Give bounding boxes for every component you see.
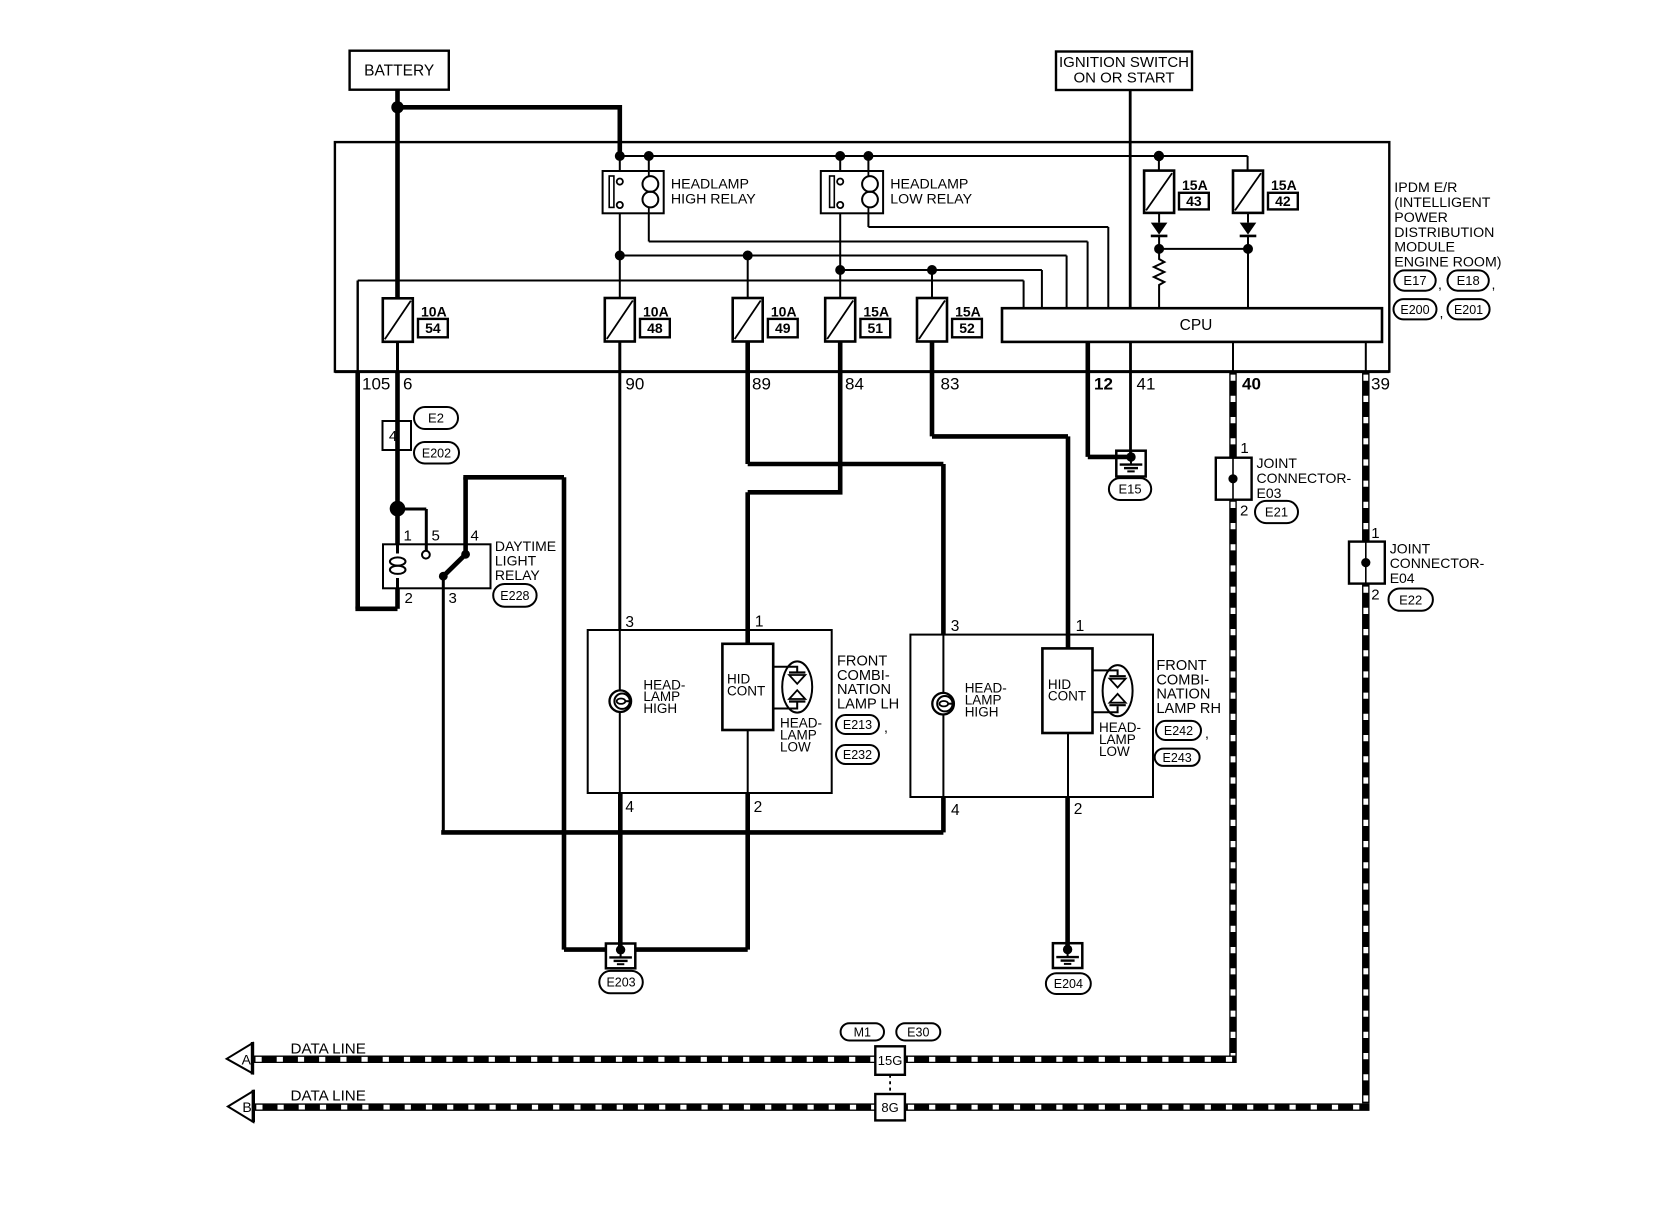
svg-text:E15: E15 bbox=[1118, 482, 1141, 497]
wire high relay contact output to fuses 48/49 and CPU bbox=[615, 213, 1067, 308]
svg-text:POWER: POWER bbox=[1394, 210, 1448, 226]
svg-text:83: 83 bbox=[941, 375, 960, 394]
svg-text:90: 90 bbox=[625, 375, 644, 394]
data line A label bbox=[291, 1041, 366, 1058]
svg-text:LAMP RH: LAMP RH bbox=[1156, 701, 1221, 717]
svg-text:1: 1 bbox=[404, 528, 412, 545]
svg-text:48: 48 bbox=[647, 320, 663, 336]
svg-text:15A: 15A bbox=[955, 304, 981, 320]
svg-text:2: 2 bbox=[1074, 801, 1083, 818]
connector E228 bbox=[493, 584, 536, 607]
front combination lamp LH label bbox=[837, 654, 899, 713]
svg-text:89: 89 bbox=[752, 375, 771, 394]
fuse 10A 49 bbox=[733, 298, 798, 342]
daytime running lamp wire (relay 3 - LH pin4 - RH pin4) bbox=[441, 793, 943, 832]
data line B label bbox=[291, 1088, 366, 1105]
svg-text:E22: E22 bbox=[1399, 592, 1422, 607]
wire CPU pin 12 to ground E15 bbox=[1088, 342, 1131, 457]
front combination lamp RH bbox=[910, 635, 1153, 797]
connector E17 bbox=[1394, 270, 1442, 292]
svg-text:LOW: LOW bbox=[1099, 744, 1130, 759]
svg-text:E03: E03 bbox=[1257, 485, 1282, 501]
svg-text:LAMP LH: LAMP LH bbox=[837, 696, 899, 712]
connector E203 bbox=[599, 971, 643, 993]
dashed link 15G-8G bbox=[889, 1075, 891, 1094]
fuse 15A 52 bbox=[917, 298, 982, 342]
connector 4 E2/E202 bbox=[383, 421, 412, 450]
svg-text:12: 12 bbox=[1094, 375, 1113, 394]
svg-text:42: 42 bbox=[1275, 193, 1291, 209]
wire bus to headlamp high relay pins bbox=[620, 156, 649, 171]
joint connector E03 labels bbox=[1240, 440, 1351, 520]
joint connector E04 bbox=[1349, 542, 1385, 584]
svg-text:4: 4 bbox=[389, 428, 397, 445]
svg-text:E242: E242 bbox=[1164, 724, 1193, 738]
connector E30 bbox=[896, 1023, 940, 1040]
RH lamp pin labels bbox=[951, 618, 1084, 819]
diode below fuse 43 bbox=[1151, 213, 1168, 249]
svg-text:CPU: CPU bbox=[1180, 317, 1213, 334]
svg-text:E203: E203 bbox=[606, 976, 635, 990]
wire branch to daytime relay pin 5 bbox=[398, 509, 427, 551]
svg-text:RELAY: RELAY bbox=[495, 567, 541, 583]
svg-text:HEADLAMP: HEADLAMP bbox=[890, 177, 968, 193]
svg-text:DATA LINE: DATA LINE bbox=[291, 1041, 366, 1058]
svg-text:E204: E204 bbox=[1054, 977, 1083, 991]
IPDM E/R module box bbox=[335, 142, 1389, 372]
wire pin 84 to LH lamp pin 1 (HID) bbox=[748, 342, 843, 644]
svg-text:E200: E200 bbox=[1400, 303, 1429, 317]
connector E242 bbox=[1156, 721, 1209, 741]
svg-text:HEADLAMP: HEADLAMP bbox=[671, 177, 749, 193]
data line A arrow bbox=[227, 1042, 253, 1075]
data line B arrow bbox=[228, 1090, 253, 1123]
data line wire pin 40 (checkered) bbox=[1229, 372, 1237, 1056]
connector E200 bbox=[1394, 299, 1444, 321]
connector E204 bbox=[1046, 973, 1091, 994]
svg-text:MODULE: MODULE bbox=[1394, 240, 1455, 256]
svg-text:15A: 15A bbox=[1182, 177, 1208, 193]
wire pin 89 to RH lamp pin 3 bbox=[748, 342, 944, 635]
LH lamp pin labels bbox=[625, 614, 763, 817]
diode below fuse 42 bbox=[1240, 213, 1257, 249]
svg-text:51: 51 bbox=[868, 320, 884, 336]
wire CPU feed line to pin 105 bbox=[358, 281, 1024, 372]
wire relay output to ground E203 bbox=[564, 947, 607, 952]
svg-text:IPDM E/R: IPDM E/R bbox=[1394, 180, 1457, 196]
connector E22 bbox=[1389, 589, 1433, 611]
connector E201 bbox=[1448, 299, 1490, 319]
wire CPU pin 105 to daytime relay coil pin 2 bbox=[355, 372, 397, 609]
splice 15G bbox=[875, 1046, 905, 1075]
svg-text:E213: E213 bbox=[843, 718, 872, 732]
splice 8G bbox=[875, 1094, 905, 1120]
svg-text:1: 1 bbox=[1076, 618, 1085, 635]
svg-text:4: 4 bbox=[625, 799, 634, 816]
svg-text:2: 2 bbox=[1240, 503, 1248, 520]
wire pin 90 to LH lamp pin 3 bbox=[618, 342, 621, 630]
daytime light relay E228 bbox=[383, 544, 491, 588]
svg-text:E21: E21 bbox=[1265, 505, 1288, 520]
svg-text:DISTRIBUTION: DISTRIBUTION bbox=[1394, 225, 1494, 241]
svg-text:10A: 10A bbox=[771, 304, 797, 320]
svg-text:,: , bbox=[884, 719, 888, 735]
battery feed wire B+ bbox=[391, 90, 620, 299]
svg-text:CONT: CONT bbox=[1048, 689, 1086, 704]
fuse 15A 51 bbox=[825, 298, 890, 342]
svg-text:HIGH: HIGH bbox=[643, 701, 677, 716]
svg-text:A: A bbox=[242, 1051, 252, 1067]
svg-text:3: 3 bbox=[625, 614, 634, 631]
svg-text:E228: E228 bbox=[500, 589, 529, 603]
svg-text:43: 43 bbox=[1186, 193, 1202, 209]
svg-text:1: 1 bbox=[755, 614, 764, 631]
svg-text:E243: E243 bbox=[1163, 751, 1192, 765]
svg-text:CONNECTOR-: CONNECTOR- bbox=[1257, 470, 1352, 486]
svg-text:105: 105 bbox=[362, 375, 390, 394]
svg-text:BATTERY: BATTERY bbox=[364, 62, 434, 79]
connector E15 bbox=[1109, 478, 1151, 500]
wire LH lamp pin 4 ground entry bbox=[618, 832, 623, 950]
svg-text:IGNITION SWITCH: IGNITION SWITCH bbox=[1059, 54, 1189, 71]
svg-text:E232: E232 bbox=[843, 748, 872, 762]
svg-text:DATA LINE: DATA LINE bbox=[291, 1088, 366, 1105]
wire daytime relay pin 4 to lamp ground line bbox=[463, 477, 564, 949]
svg-text:E04: E04 bbox=[1390, 570, 1415, 586]
svg-text:,: , bbox=[1492, 276, 1496, 292]
svg-text:10A: 10A bbox=[421, 304, 447, 320]
wire diode 42 to CPU bbox=[1247, 249, 1249, 308]
junction dots on battery bus bbox=[615, 151, 1164, 161]
battery B1 bbox=[350, 51, 449, 90]
svg-text:2: 2 bbox=[754, 799, 763, 816]
ground E203 bbox=[606, 944, 635, 969]
wire CPU pin 41 to ground E15 bbox=[1129, 342, 1132, 459]
svg-text:2: 2 bbox=[405, 590, 413, 607]
svg-text:E202: E202 bbox=[422, 446, 451, 460]
svg-text:LOW: LOW bbox=[780, 740, 811, 755]
svg-text:JOINT: JOINT bbox=[1257, 455, 1298, 471]
data line wire pin 39 (checkered) bbox=[1362, 372, 1370, 1104]
IPDM E/R label text bbox=[1394, 180, 1501, 270]
svg-text:E2: E2 bbox=[428, 411, 444, 426]
svg-text:4: 4 bbox=[951, 802, 960, 819]
svg-text:10A: 10A bbox=[643, 304, 669, 320]
wire low relay coil return to CPU bbox=[868, 213, 1108, 308]
data line B (checkered) bbox=[253, 1103, 1369, 1111]
svg-text:ENGINE ROOM): ENGINE ROOM) bbox=[1394, 254, 1501, 270]
ground E204 bbox=[1053, 943, 1082, 968]
svg-text:1: 1 bbox=[1240, 440, 1248, 457]
CPU pin stubs to IPDM border bbox=[1233, 342, 1366, 372]
fuse 15A 43 bbox=[1144, 171, 1209, 213]
connector E243 bbox=[1155, 749, 1200, 766]
svg-text:M1: M1 bbox=[854, 1025, 871, 1039]
fuse 10A 54 bbox=[383, 298, 448, 342]
wire high relay coil return to CPU bbox=[649, 213, 1088, 308]
svg-text:41: 41 bbox=[1137, 375, 1156, 394]
svg-text:E17: E17 bbox=[1403, 273, 1426, 288]
connector E202 bbox=[414, 442, 459, 464]
wire to daytime relay coil pin 1 bbox=[395, 509, 400, 545]
svg-text:15A: 15A bbox=[1271, 177, 1297, 193]
connector E232 bbox=[836, 745, 879, 764]
svg-text:3: 3 bbox=[449, 590, 457, 607]
svg-text:E30: E30 bbox=[907, 1025, 929, 1039]
svg-text:4: 4 bbox=[471, 528, 479, 545]
svg-text:8G: 8G bbox=[881, 1100, 898, 1115]
ground E15 bbox=[1116, 451, 1145, 477]
svg-text:54: 54 bbox=[425, 320, 441, 336]
wire joining diode outputs bbox=[1154, 244, 1253, 254]
wire ignition to IPDM pin 41 / CPU bbox=[1129, 90, 1132, 308]
svg-text:E18: E18 bbox=[1457, 273, 1480, 288]
fuse 15A 42 bbox=[1233, 171, 1298, 213]
data line A (checkered) bbox=[253, 1056, 1237, 1064]
svg-text:ON OR START: ON OR START bbox=[1073, 70, 1174, 87]
CPU bbox=[1002, 308, 1382, 342]
svg-text:84: 84 bbox=[845, 375, 864, 394]
svg-text:15G: 15G bbox=[878, 1053, 903, 1068]
svg-text:1: 1 bbox=[1371, 525, 1379, 542]
svg-text:LOW RELAY: LOW RELAY bbox=[890, 192, 972, 208]
front combination lamp RH label bbox=[1156, 658, 1221, 717]
svg-text:49: 49 bbox=[775, 320, 791, 336]
svg-text:2: 2 bbox=[1371, 587, 1379, 604]
bus wire from battery to relays and fuses 43/42 bbox=[620, 156, 1248, 171]
wire daytime relay pin 3 down bbox=[442, 588, 445, 832]
svg-text:JOINT: JOINT bbox=[1390, 540, 1431, 556]
svg-text:(INTELLIGENT: (INTELLIGENT bbox=[1394, 195, 1491, 211]
svg-text:6: 6 bbox=[403, 375, 412, 394]
front combination lamp LH bbox=[588, 630, 832, 793]
svg-text:B: B bbox=[242, 1099, 251, 1115]
svg-text:CONNECTOR-: CONNECTOR- bbox=[1390, 555, 1485, 571]
daytime light relay label bbox=[495, 538, 556, 583]
joint connector E03 bbox=[1216, 458, 1252, 500]
resistor to CPU bbox=[1154, 249, 1164, 308]
svg-text:15A: 15A bbox=[863, 304, 889, 320]
headlamp high relay bbox=[603, 171, 757, 213]
wire bus to headlamp low relay pins bbox=[840, 156, 868, 171]
wire RH lamp pin 2 to ground E204 bbox=[1065, 797, 1070, 950]
wire fuse 54 output through pin 6 to connector E2 bbox=[396, 342, 399, 509]
svg-text:,: , bbox=[1438, 276, 1442, 292]
IPDM pin numbers bbox=[362, 375, 1390, 394]
ignition switch source bbox=[1056, 52, 1192, 91]
svg-text:,: , bbox=[1440, 305, 1444, 321]
connector M1 bbox=[841, 1023, 884, 1040]
svg-text:52: 52 bbox=[959, 320, 975, 336]
svg-text:HIGH: HIGH bbox=[965, 705, 999, 720]
svg-text:5: 5 bbox=[432, 528, 440, 545]
joint connector E04 labels bbox=[1371, 525, 1484, 604]
svg-text:,: , bbox=[1205, 725, 1209, 741]
headlamp low relay bbox=[821, 171, 973, 213]
wire LH lamp pin 2 to ground E203 bbox=[636, 793, 748, 950]
daytime relay pin labels bbox=[404, 528, 479, 608]
svg-text:3: 3 bbox=[951, 618, 960, 635]
connector E213 bbox=[836, 715, 888, 735]
connector E18 bbox=[1448, 270, 1496, 292]
svg-text:40: 40 bbox=[1242, 375, 1261, 394]
fuse 10A 48 bbox=[605, 298, 670, 342]
connector E21 bbox=[1255, 501, 1298, 523]
svg-text:CONT: CONT bbox=[727, 683, 765, 698]
svg-text:39: 39 bbox=[1371, 375, 1390, 394]
junction dot to daytime relay bbox=[390, 501, 406, 517]
svg-text:E201: E201 bbox=[1454, 303, 1483, 317]
wire low relay contact output to fuses 51/52 and CPU bbox=[835, 213, 1042, 308]
connector E2 bbox=[414, 407, 458, 429]
wire pin 83 to RH lamp pin 1 (HID) bbox=[932, 342, 1068, 649]
svg-text:HIGH RELAY: HIGH RELAY bbox=[671, 192, 756, 208]
